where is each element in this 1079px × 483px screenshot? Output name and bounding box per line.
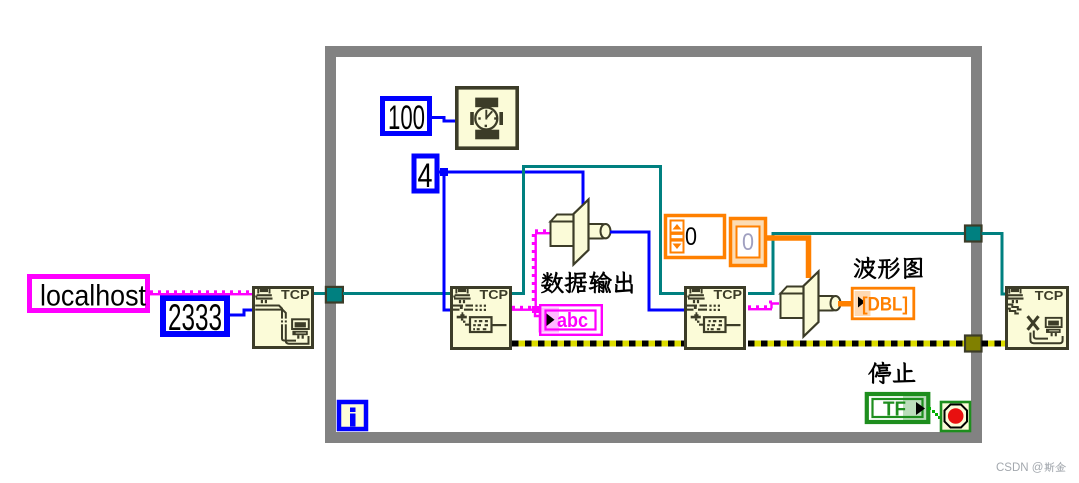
svg-text:TCP: TCP [1035, 289, 1064, 303]
wire: 4 junction to Type Cast 1 type input (blue) [444, 172, 583, 208]
wire: Type Cast1 output to TCP Read2 bytes-to-read (blue) [610, 232, 685, 310]
wire: 4 to TCP Read 1 left input (blue, branch down) [437, 168, 451, 310]
wire: TF to stop button (green dotted) [928, 407, 941, 419]
tunnel: TCP refnum on left border [326, 287, 343, 303]
label 数据输出 [541, 272, 632, 294]
error wire: TCP Read1 to TCP Read2 [512, 341, 685, 347]
TCP Read 2 icon [686, 288, 745, 349]
svg-text:localhost: localhost [40, 280, 147, 313]
svg-text:4: 4 [418, 157, 433, 195]
string indicator abc [538, 305, 602, 335]
wire: TCP Read1 data out to Type Cast1 / string indicator (magenta) [512, 229, 551, 316]
wire: TCP Read2 data out to Type Cast2 (magenta) [748, 301, 779, 311]
label 停止 [869, 362, 916, 384]
tunnel: error out on right border [965, 336, 982, 352]
Type Cast 1 (string to I32) [551, 200, 611, 265]
tunnel: TCP refnum on right border [965, 226, 982, 242]
array constant (empty DBL array) index box [666, 216, 725, 258]
svg-text:[DBL]: [DBL] [862, 295, 908, 316]
svg-text:TCP: TCP [714, 288, 743, 302]
wire: localhost string to TCP Open (magenta) [150, 290, 253, 295]
svg-text:TCP: TCP [281, 288, 310, 302]
svg-text:abc: abc [557, 310, 588, 332]
numeric constant 2333 [163, 297, 227, 338]
wire: 100 to Wait ms (blue) [432, 118, 456, 122]
boolean terminal TF (stop) [867, 394, 929, 422]
svg-text:CSDN @: CSDN @ [996, 462, 1043, 474]
svg-text:TF: TF [883, 399, 906, 421]
svg-text:100: 100 [388, 99, 425, 137]
svg-text:TCP: TCP [480, 288, 509, 302]
wire: Type Cast2 output to waveform chart (orange) [838, 301, 852, 307]
iteration terminal i [339, 402, 366, 429]
array constant element box (grayed 0) [731, 219, 766, 266]
numeric constant 4 [414, 156, 437, 195]
wire: 2333 to TCP Open (blue) [230, 310, 253, 315]
wire: left tunnel to TCP Read 1 (teal) [343, 292, 451, 295]
svg-text:0: 0 [742, 229, 754, 256]
wire: right tunnel to TCP Close (teal) [982, 234, 1007, 295]
TCP Open Connection icon [254, 288, 313, 348]
label 波形图 [854, 257, 922, 279]
wire: array constant to Type Cast2 type input (orange thick) [767, 238, 809, 278]
error wire: right tunnel to TCP Close [982, 341, 1007, 347]
wire: TCP Read1 refnum out over to TCP Read2 (teal) [512, 167, 685, 294]
string constant localhost [30, 277, 148, 313]
error wire: TCP Read2 to right tunnel [748, 341, 965, 347]
stop button [941, 402, 970, 431]
watermark CSDN @斯金 [996, 462, 1066, 474]
svg-text:2333: 2333 [168, 297, 222, 338]
Wait (ms) icon [457, 88, 517, 148]
svg-text:0: 0 [685, 223, 697, 251]
wire: TCP Read2 refnum out to right tunnel (teal) [748, 234, 965, 294]
numeric constant 100 [383, 99, 430, 138]
Type Cast 2 (string to DBL array) [781, 272, 841, 337]
while loop border [331, 52, 977, 438]
waveform chart terminal [DBL] [852, 288, 914, 319]
TCP Read 1 icon [452, 288, 511, 349]
TCP Close icon [1006, 288, 1067, 349]
wire: TCP Open to left tunnel (teal) [314, 292, 326, 295]
